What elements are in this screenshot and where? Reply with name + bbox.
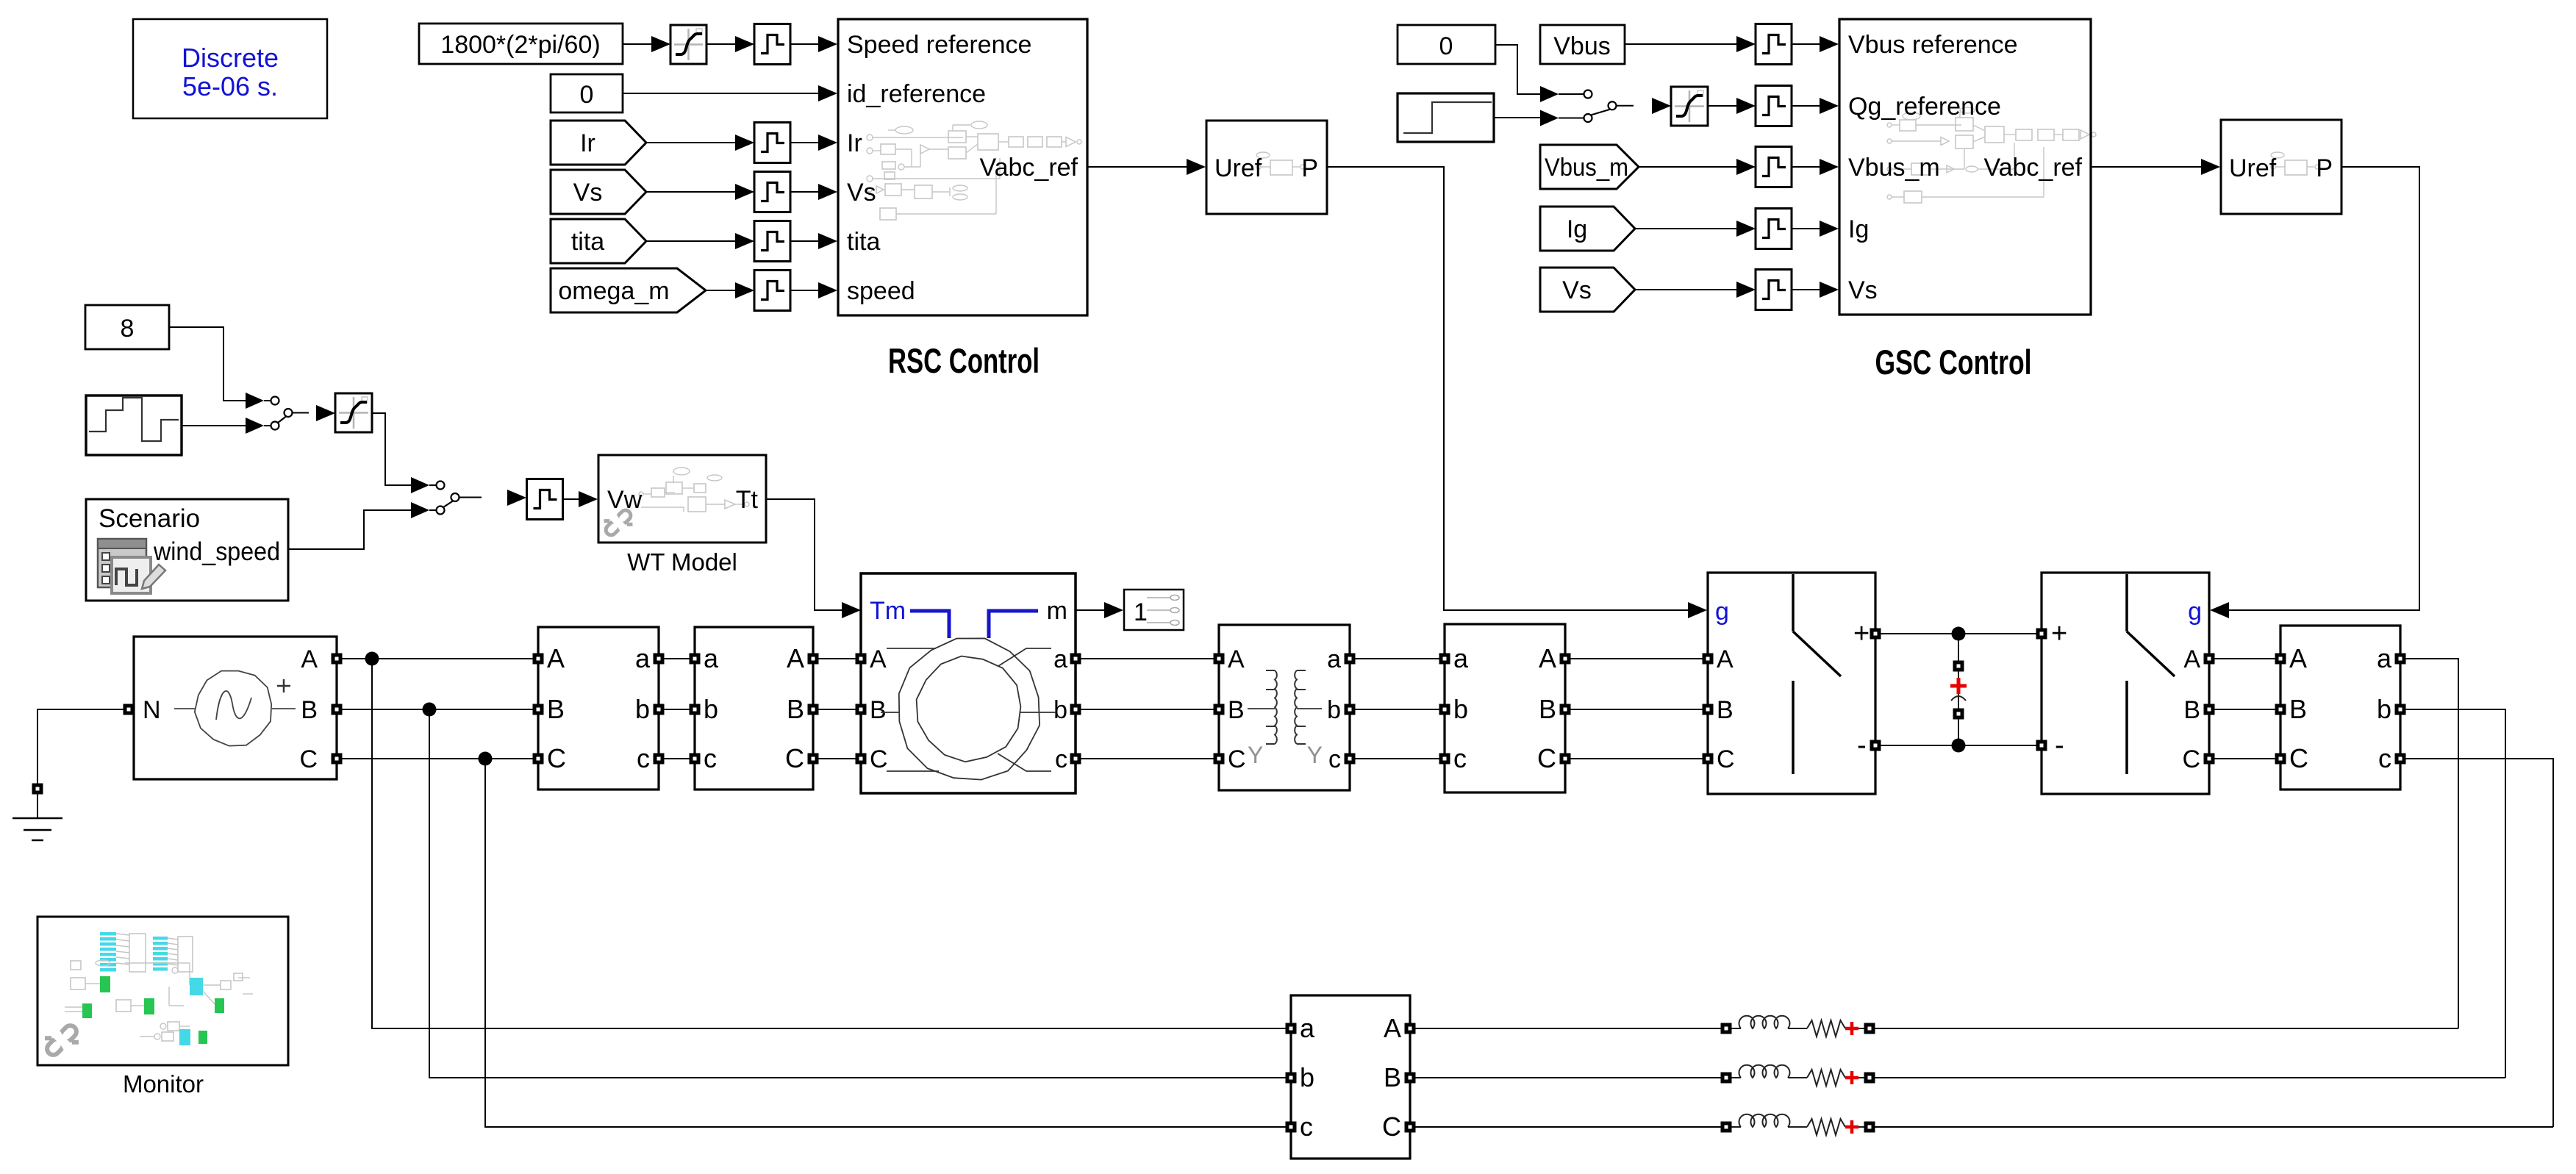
subsystem internals GSC Control (faint)	[1887, 107, 2096, 203]
svg-text:Ig: Ig	[1567, 215, 1587, 243]
arrowhead into Vbus_m rate transition	[1736, 159, 1756, 175]
ground symbol	[12, 794, 62, 840]
arrowhead into Ig rate transition	[1736, 221, 1756, 237]
wire machine m to bus selector	[1076, 609, 1104, 611]
capacitor plate curve	[1951, 696, 1966, 701]
svg-text:P: P	[1301, 154, 1318, 182]
wire RL branch 2 right stub	[1858, 1077, 1864, 1078]
three-phase source block	[134, 637, 337, 779]
wire DC link negative	[1881, 745, 2036, 746]
arrowhead into GSC Vbus reference	[1820, 36, 1839, 52]
subsystem internals Uref2 (faint)	[2271, 152, 2319, 175]
wire GSC converter C to B4	[2214, 758, 2275, 759]
wire omega_m tag to rate transition	[706, 290, 735, 291]
manual switch Qg	[1540, 86, 1634, 126]
arrowhead into GSC Vbus_m	[1820, 159, 1839, 175]
icon source sine circle	[195, 671, 271, 746]
block B4 three-phase measurement	[2280, 626, 2400, 790]
svg-text:Y: Y	[1307, 742, 1323, 768]
svg-text:8: 8	[121, 315, 135, 343]
arrowhead into Ir rate transition	[735, 135, 754, 151]
wire rate transition to RSC Speed reference	[790, 43, 818, 45]
svg-text:c: c	[1453, 743, 1467, 773]
wire B1 b to block2 b	[664, 709, 690, 710]
subsystem internals WT Model (faint)	[639, 468, 749, 512]
wire 0 const to manual switch (Qg)	[1495, 45, 1540, 94]
block GSC converter (universal bridge)	[2042, 573, 2209, 794]
resistor RL branch 3	[1807, 1119, 1845, 1135]
svg-text:P: P	[2316, 154, 2333, 182]
port B2 c in	[1439, 754, 1450, 765]
wire phase C drop to B3	[485, 759, 1286, 1127]
inductor RL branch 1	[1739, 1016, 1790, 1028]
svg-text:C: C	[2289, 743, 2308, 773]
goto tag Vs (GSC)	[1540, 268, 1635, 312]
svg-text:b: b	[1453, 694, 1468, 724]
subsystem internals RSC Control (faint)	[867, 121, 1081, 220]
icon transformer winding 1 stubs	[1266, 670, 1275, 744]
wire RL branch 1 mid	[1788, 1028, 1807, 1029]
svg-text:Ig: Ig	[1848, 215, 1869, 243]
manual switch 1 (wind source select)	[246, 393, 309, 434]
port RL branch 3 left	[1721, 1122, 1732, 1133]
port block2 C out	[808, 754, 819, 765]
wire wind rate transition to WT Model	[563, 498, 579, 500]
svg-text:1800*(2*pi/60): 1800*(2*pi/60)	[440, 31, 600, 59]
svg-text:c: c	[1328, 745, 1341, 773]
rate transition block Speed reference	[754, 24, 790, 65]
port RL branch 2 left	[1721, 1073, 1732, 1084]
port RL branch 1 right	[1864, 1023, 1875, 1034]
svg-text:b: b	[704, 694, 718, 724]
svg-text:B: B	[2289, 694, 2307, 724]
svg-text:Speed reference: Speed reference	[847, 31, 1031, 59]
port block2 c in	[690, 754, 701, 765]
icon broken library link Monitor	[40, 1018, 85, 1063]
svg-text:A: A	[1384, 1013, 1401, 1043]
wire Uref1 P to RSC converter g	[1327, 167, 1688, 610]
port transformer B in	[1214, 704, 1225, 715]
goto tag Vbus_m	[1540, 145, 1639, 189]
arrowhead into RSC Vs	[818, 184, 837, 200]
port B4 b out	[2395, 704, 2406, 715]
block RSC Control	[838, 19, 1087, 315]
port machine A in	[856, 654, 867, 665]
svg-text:c: c	[1300, 1112, 1313, 1142]
svg-text:-: -	[2055, 730, 2064, 761]
wire machine b to transformer B	[1081, 709, 1214, 710]
port block2 B out	[808, 704, 819, 715]
port B2 a in	[1439, 654, 1450, 665]
block RSC converter (universal bridge)	[1708, 573, 1875, 794]
wire transformer b to B2 b	[1355, 709, 1439, 710]
port B2 b in	[1439, 704, 1450, 715]
port B4 B in	[2275, 704, 2286, 715]
port RSC converter C	[1703, 754, 1714, 765]
port B4 A in	[2275, 654, 2286, 665]
junction dot phase A	[365, 652, 379, 666]
rate transition block Vbus reference	[1756, 24, 1792, 65]
arrowhead into rate transition Speed	[735, 36, 754, 52]
arrowhead into RSC id_reference	[818, 85, 837, 101]
icon RSC converter IGBT switch	[1793, 574, 1841, 774]
svg-text:A: A	[301, 645, 318, 673]
port RL branch 1 left	[1721, 1023, 1732, 1034]
arrowhead into Vbus rate transition	[1736, 36, 1756, 52]
svg-text:B: B	[870, 696, 887, 724]
subsystem internals Monitor (colored, faint)	[65, 932, 253, 1045]
arrowhead into speed rate transition	[735, 282, 754, 298]
wire tita tag to rate transition	[646, 240, 735, 242]
svg-text:id_reference: id_reference	[847, 80, 986, 108]
svg-text:Vbus: Vbus	[1553, 32, 1611, 60]
port transformer a out	[1345, 654, 1356, 665]
arrowhead into GSC Vs	[1820, 282, 1839, 298]
svg-text:a: a	[635, 643, 651, 673]
goto tag tita	[551, 219, 646, 263]
icon source stubs	[174, 708, 296, 709]
svg-text:Monitor: Monitor	[123, 1070, 204, 1098]
wire WT Model Tt to machine Tm	[766, 499, 842, 610]
svg-text:Vabc_ref: Vabc_ref	[979, 154, 1078, 182]
port transformer A in	[1214, 654, 1225, 665]
wire Ir rate transition to RSC	[790, 142, 818, 143]
wire Vs rate transition to RSC	[790, 191, 818, 193]
svg-text:Vs: Vs	[573, 179, 603, 207]
wire 0 const to RSC id_reference	[623, 93, 818, 94]
svg-text:A: A	[1717, 645, 1734, 673]
block B1 three-phase measurement	[538, 627, 659, 790]
block Monitor	[37, 917, 288, 1065]
svg-text:A: A	[2289, 643, 2307, 673]
block GSC Control	[1839, 19, 2091, 315]
junction dot DC positive	[1952, 627, 1966, 641]
port RSC converter A	[1703, 654, 1714, 665]
wire GSC converter A to B4	[2214, 658, 2275, 659]
rate transition block Vbus_m	[1756, 147, 1792, 187]
svg-text:Vw: Vw	[607, 486, 643, 514]
port RL branch 3 right	[1864, 1122, 1875, 1133]
svg-text:tita: tita	[571, 228, 604, 256]
svg-text:Scenario: Scenario	[99, 504, 200, 533]
signal builder block wind step	[86, 395, 182, 455]
port source A	[332, 654, 343, 665]
rate transition block tita	[754, 221, 790, 262]
arrowhead into RSC tita	[818, 233, 837, 249]
block Discrete sample-time annotation	[133, 19, 327, 118]
port transformer c out	[1345, 754, 1356, 765]
port GSC converter plus	[2036, 629, 2047, 640]
goto tag Vs (RSC)	[551, 170, 646, 214]
arrowhead into RSC converter g	[1688, 602, 1707, 618]
constant block 8	[85, 305, 169, 349]
block 2 three-phase measurement	[695, 627, 813, 790]
svg-text:+: +	[2051, 618, 2067, 649]
wire Vs tag to rate transition	[646, 191, 735, 193]
svg-text:b: b	[1327, 696, 1341, 724]
port DC capacitor top	[1953, 661, 1964, 672]
arrowhead into saturation wind	[316, 405, 335, 421]
RL branch 1 red plus	[1845, 1022, 1858, 1035]
goto tag omega_m	[551, 268, 706, 312]
wire wind step to manual switch 1	[182, 425, 246, 426]
icon source plus sign	[277, 679, 290, 692]
port machine c out	[1070, 754, 1081, 765]
svg-text:1: 1	[1134, 598, 1148, 626]
icon source sine wave	[216, 691, 251, 720]
wire Vbus rate transition to GSC	[1791, 43, 1820, 45]
icon transformer winding 1	[1275, 670, 1277, 744]
wire RL branch 3 mid	[1788, 1126, 1807, 1128]
svg-text:RSC Control: RSC Control	[888, 341, 1040, 380]
svg-text:Tm: Tm	[870, 597, 906, 625]
svg-text:0: 0	[1439, 32, 1453, 60]
port B1 C in	[533, 754, 544, 765]
saturation block wind	[335, 393, 372, 432]
svg-text:0: 0	[580, 81, 594, 109]
port RSC converter minus	[1870, 740, 1881, 751]
icon machine stator lead C	[887, 770, 939, 772]
port B2 A out	[1560, 654, 1571, 665]
svg-text:Qg_reference: Qg_reference	[1848, 93, 2001, 121]
wire B2 C to RSC converter C	[1570, 758, 1703, 759]
port GSC converter B	[2204, 704, 2215, 715]
svg-text:5e-06 s.: 5e-06 s.	[182, 71, 278, 101]
arrowhead into bus selector	[1104, 602, 1123, 618]
svg-text:A: A	[1539, 643, 1556, 673]
wire DC link positive	[1881, 633, 2036, 634]
port B2 B out	[1560, 704, 1571, 715]
svg-text:Vbus reference: Vbus reference	[1848, 31, 2018, 59]
port machine b out	[1070, 704, 1081, 715]
svg-text:tita: tita	[847, 228, 880, 256]
step source block (Qg reference step)	[1398, 93, 1494, 142]
svg-text:a: a	[704, 643, 719, 673]
wire B2 A to RSC converter A	[1570, 658, 1703, 659]
arrowhead into GSC Qg_reference	[1820, 98, 1839, 114]
port block2 a in	[690, 654, 701, 665]
port ground	[32, 784, 43, 795]
wire phase A drop to B3	[372, 659, 1286, 1028]
port RSC converter plus	[1870, 629, 1881, 640]
wire phase B drop to B3	[429, 709, 1286, 1078]
block Uref1 (RSC modulator)	[1206, 121, 1327, 214]
wire Vbus_m tag to rate transition	[1639, 166, 1736, 168]
icon transformer center taps	[1248, 708, 1322, 709]
svg-text:g: g	[1715, 598, 1729, 626]
constant block 1800*(2*pi/60)	[419, 24, 623, 64]
svg-text:B: B	[547, 694, 565, 724]
svg-text:A: A	[547, 643, 565, 673]
svg-text:B: B	[1539, 694, 1556, 724]
block bus selector 1	[1124, 590, 1184, 630]
svg-text:A: A	[2183, 645, 2200, 673]
RL branch 2 red plus	[1845, 1071, 1858, 1084]
port B1 b out	[654, 704, 665, 715]
wire RL branch 2 return	[1875, 1077, 2505, 1078]
wire Qg saturation to rate transition	[1708, 105, 1736, 107]
svg-text:c: c	[2378, 743, 2391, 773]
arrowhead into wind rate transition	[507, 490, 526, 506]
port B3 a in	[1286, 1023, 1297, 1034]
port machine B in	[856, 704, 867, 715]
arrowhead into machine Tm	[842, 602, 861, 618]
icon machine stator lead A	[887, 648, 936, 649]
port RL branch 2 right	[1864, 1073, 1875, 1084]
svg-text:C: C	[785, 743, 804, 773]
wire Vs tag to rate transition	[1635, 289, 1736, 290]
wire source A to B1	[342, 658, 533, 659]
wire B4 c to RL branch 3	[2405, 759, 2553, 1127]
svg-text:-: -	[1857, 730, 1867, 761]
wire RSC Vabc_ref to Uref1	[1087, 166, 1187, 168]
wire source C to B1	[342, 758, 533, 759]
svg-text:b: b	[635, 694, 650, 724]
port transformer C in	[1214, 754, 1225, 765]
svg-text:b: b	[1300, 1062, 1314, 1092]
wire speed rate transition to RSC	[790, 290, 818, 291]
svg-text:C: C	[870, 745, 888, 773]
junction dot phase C	[479, 752, 493, 766]
wire RL branch 1 return	[1875, 1028, 2458, 1029]
svg-text:Vs: Vs	[847, 179, 876, 207]
wire Vs rate transition to GSC	[1791, 289, 1820, 290]
wire block2 B to machine B	[818, 709, 856, 710]
port B3 c in	[1286, 1122, 1297, 1133]
wire RL branch 2 mid	[1788, 1077, 1807, 1078]
icon transformer winding 2	[1295, 670, 1297, 744]
svg-text:Ir: Ir	[847, 129, 862, 157]
wire source B to B1	[342, 709, 533, 710]
wire Qg rate transition to GSC	[1791, 105, 1820, 107]
wire B1 a to block2 a	[664, 658, 690, 659]
wire RL branch 3 return	[1875, 1126, 2553, 1128]
svg-text:wind_speed: wind_speed	[153, 537, 280, 566]
svg-text:A: A	[787, 643, 804, 673]
wire Ig rate transition to GSC	[1791, 228, 1820, 229]
wire tita rate transition to RSC	[790, 240, 818, 242]
svg-text:B: B	[787, 694, 804, 724]
port GSC converter C	[2204, 754, 2215, 765]
rate transition block Ir	[754, 123, 790, 163]
svg-text:a: a	[1300, 1013, 1315, 1043]
rate transition block speed	[754, 271, 790, 311]
port B1 A in	[533, 654, 544, 665]
wire B1 c to block2 c	[664, 758, 690, 759]
svg-text:a: a	[1053, 645, 1067, 673]
arrowhead into WT Model Vw	[579, 491, 598, 507]
svg-text:+: +	[1853, 618, 1870, 649]
port B1 B in	[533, 704, 544, 715]
svg-text:Vabc_ref: Vabc_ref	[1983, 154, 2082, 182]
icon transformer winding 2 stubs	[1297, 670, 1306, 744]
junction dot DC negative	[1952, 739, 1966, 753]
icon GSC converter IGBT switch	[2127, 574, 2175, 774]
inductor RL branch 3	[1739, 1114, 1790, 1127]
port DC capacitor bottom	[1953, 709, 1964, 720]
wire step to manual switch (Qg)	[1494, 117, 1540, 118]
wire Vbus tag to rate transition	[1625, 43, 1736, 45]
svg-text:N: N	[143, 696, 161, 724]
block asynchronous machine	[861, 573, 1076, 793]
svg-text:Ir: Ir	[580, 129, 595, 157]
wire transformer c to B2 c	[1355, 758, 1439, 759]
svg-text:C: C	[1228, 745, 1246, 773]
port GSC converter A	[2204, 654, 2215, 665]
svg-text:c: c	[637, 743, 650, 773]
constant block 0 (id_reference)	[551, 74, 623, 112]
svg-text:a: a	[2377, 643, 2392, 673]
port source C	[332, 754, 343, 765]
arrowhead into Vs rate transition	[735, 184, 754, 200]
wire 8 const to manual switch 1	[169, 327, 246, 401]
arrowhead into RSC speed	[818, 282, 837, 298]
svg-text:B: B	[1228, 696, 1245, 724]
rate transition block Vs GSC	[1756, 270, 1792, 310]
arrowhead into Uref2	[2201, 159, 2220, 175]
resistor RL branch 2	[1807, 1070, 1845, 1086]
svg-text:c: c	[704, 743, 717, 773]
rate transition block Vs	[754, 172, 790, 212]
block three-phase transformer	[1219, 625, 1350, 790]
port block2 A out	[808, 654, 819, 665]
svg-text:A: A	[1228, 645, 1245, 673]
icon machine rotor lead c	[998, 754, 1051, 771]
rate transition block Ig	[1756, 209, 1792, 249]
svg-text:Vs: Vs	[1562, 276, 1592, 304]
port machine C in	[856, 754, 867, 765]
arrowhead into GSC Ig	[1820, 221, 1839, 237]
arrowhead into Qg rate transition	[1736, 98, 1756, 114]
capacitor red plus	[1950, 678, 1967, 694]
svg-text:C: C	[2182, 745, 2200, 773]
RL branch 3 red plus	[1845, 1120, 1858, 1134]
svg-text:C: C	[547, 743, 566, 773]
wire RL branch 3 right stub	[1858, 1126, 1864, 1128]
svg-text:b: b	[2377, 694, 2391, 724]
manual switch 2 (wind speed select)	[411, 477, 482, 518]
svg-text:GSC Control: GSC Control	[1875, 343, 2032, 382]
svg-text:Discrete: Discrete	[182, 43, 279, 73]
wire Vbus_m rate transition to GSC	[1791, 166, 1820, 168]
wire RL branch 1 stub	[1731, 1028, 1741, 1029]
block B3 three-phase measurement	[1291, 995, 1410, 1159]
svg-text:b: b	[1053, 696, 1067, 724]
port source N	[124, 704, 135, 715]
wire Ir tag to rate transition	[646, 142, 735, 143]
constant block 0 (Qg)	[1398, 25, 1495, 64]
port block2 b in	[690, 704, 701, 715]
port RSC converter B	[1703, 704, 1714, 715]
wire block2 C to machine C	[818, 758, 856, 759]
arrowhead into GSC converter g (left-pointing)	[2210, 602, 2229, 618]
arrowhead into RSC Ir	[818, 135, 837, 151]
resistor RL branch 1	[1807, 1020, 1845, 1037]
port B1 c out	[654, 754, 665, 765]
arrowhead into Uref1	[1187, 159, 1206, 175]
svg-text:WT Model: WT Model	[627, 548, 737, 576]
arrowhead into saturation Qg	[1652, 98, 1671, 114]
arrowhead into Vs rate transition	[1736, 282, 1756, 298]
svg-text:Vbus_m: Vbus_m	[1848, 154, 1940, 182]
svg-text:C: C	[1537, 743, 1556, 773]
icon scenario signal-editor	[98, 539, 165, 593]
svg-text:c: c	[1055, 745, 1067, 773]
port machine a out	[1070, 654, 1081, 665]
icon machine stator lead B	[881, 712, 899, 713]
block Uref2 (GSC modulator)	[2221, 120, 2341, 214]
svg-text:speed: speed	[847, 277, 915, 305]
